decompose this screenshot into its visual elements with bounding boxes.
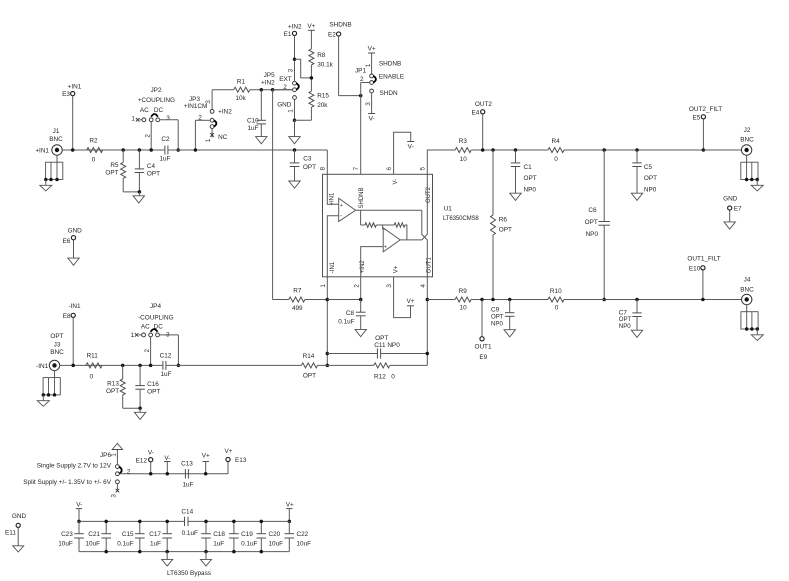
svg-text:8: 8 [320,166,327,170]
node R8-R15 junction [310,76,314,80]
power flag V- at E12 rail [164,455,170,476]
svg-text:R7: R7 [293,287,302,294]
svg-text:OUT1: OUT1 [474,344,491,351]
svg-text:OPT: OPT [147,388,160,395]
svg-text:-COUPLING: -COUPLING [138,314,174,321]
capacitor C8 0.1uF [338,298,365,330]
turret E9 OUT1 [474,298,491,361]
resistor R5 OPT [105,148,125,192]
svg-text:GND: GND [277,101,292,108]
capacitor C19 0.1uF [229,520,257,554]
wire A2 +input from pin 2 [361,247,384,277]
svg-text:2: 2 [198,115,202,122]
wire R5-C4 tie to ground [123,190,141,194]
svg-text:1uF: 1uF [150,540,161,547]
svg-text:C6: C6 [588,207,597,214]
svg-text:-: - [340,214,342,220]
wire bypass top rail [79,520,289,522]
wire to J2 [703,149,741,151]
wire -IN1 rail right segment [166,364,302,366]
svg-text:C17: C17 [149,531,161,538]
capacitor C18 1uF [201,520,225,554]
svg-text:BNC: BNC [740,286,754,293]
capacitor C3 OPT [290,148,316,181]
wire E1 down [293,36,312,78]
svg-text:V-: V- [76,502,82,509]
wire A1 output [356,209,422,211]
turret E10 OUT1_FILT [687,255,720,301]
power flag V- bypass rail [76,502,83,524]
node JP5 pin1 / R15 ground tie [293,118,312,136]
resistor R15 20k [309,91,329,120]
svg-text:SHDN: SHDN [380,90,398,97]
svg-text:2: 2 [127,468,131,475]
svg-text:NP0: NP0 [619,323,631,330]
connector J2 BNC [740,127,763,191]
svg-text:0.1uF: 0.1uF [241,540,257,547]
svg-text:OUT2: OUT2 [426,186,432,203]
capacitor C16 OPT [135,364,160,409]
capacitor C11 NP0 OPT [327,335,427,359]
capacitor C5 OPT NP0 [632,148,657,193]
svg-text:C10: C10 [247,117,259,124]
svg-text:0: 0 [554,156,558,163]
svg-text:OUT2: OUT2 [475,101,492,108]
op-amp A1 triangle [339,198,356,221]
svg-text:SHDNB: SHDNB [379,61,401,68]
svg-text:0: 0 [90,373,94,380]
internal resistor Rf2 [376,223,407,240]
svg-text:1uF: 1uF [182,481,193,488]
svg-text:0: 0 [391,373,395,380]
svg-text:V+: V+ [368,45,376,52]
ground under C8 [355,329,366,336]
node pin1 column C11 tap [326,352,330,356]
svg-text:10uF: 10uF [269,540,284,547]
svg-text:V-: V- [369,116,375,123]
wire E2 to SHDNB column [339,36,363,97]
svg-text:NC: NC [218,134,228,141]
svg-text:C14: C14 [181,509,193,516]
U1 pin 6 V- [386,132,411,184]
svg-text:OPT: OPT [303,373,316,380]
svg-text:E13: E13 [235,457,247,464]
svg-text:E10: E10 [689,265,701,272]
U1 pin 2 +IN2 [353,260,366,300]
svg-text:R13: R13 [107,381,119,388]
U1 pin 8 +IN1 [320,166,339,205]
svg-text:1: 1 [131,116,135,123]
node JP3 leg on rail [194,148,198,152]
wire A1 output crossover to OUT1 [422,210,428,277]
capacitor C20 10uF [257,520,284,554]
ground under C16 [134,412,145,419]
svg-text:1: 1 [288,109,295,113]
power flag V- bracket pin6 [407,142,414,151]
svg-text:C18: C18 [213,531,225,538]
svg-text:10uF: 10uF [85,540,100,547]
svg-text:NP0: NP0 [491,320,503,327]
svg-text:DC: DC [154,107,164,114]
svg-text:2: 2 [353,284,360,288]
svg-text:C11 NP0: C11 NP0 [374,342,400,349]
svg-text:C21: C21 [88,531,100,538]
svg-text:R15: R15 [317,93,329,100]
svg-text:R6: R6 [499,217,508,224]
node C6 bottom [602,298,606,302]
U1 pin 3 V+ [386,265,410,317]
turret E3 +IN1 [62,84,82,150]
svg-text:V+: V+ [307,23,315,30]
svg-text:0: 0 [555,305,559,312]
svg-text:C12: C12 [160,353,172,360]
power flag V- below JP1 [368,114,375,123]
wire +IN1 rail left segment [62,149,165,151]
svg-text:499: 499 [292,305,303,312]
svg-text:1uF: 1uF [248,125,259,132]
power flag V+ at C13 rail [202,453,210,476]
capacitor C13 1uF series [181,461,193,489]
svg-text:NP0: NP0 [586,231,599,238]
resistor R13 OPT [106,364,125,409]
svg-text:1uF: 1uF [160,371,171,378]
svg-text:BNC: BNC [740,136,754,143]
svg-text:C22: C22 [297,531,309,538]
power flag V+ bypass rail [286,502,294,524]
svg-text:V+: V+ [202,453,210,460]
resistor R2 0 [87,138,103,164]
wire +IN1 rail right segment [168,150,327,174]
ground under C17 [162,552,173,566]
jumper JP6 supply select [100,452,131,498]
svg-text:10uF: 10uF [58,540,73,547]
ground under C4 [133,192,144,203]
svg-text:E4: E4 [471,109,479,116]
svg-text:1: 1 [320,284,327,288]
resistor R12 0 [327,363,427,381]
svg-text:4: 4 [420,284,427,288]
node R1-C10-vertical junction [271,88,275,92]
node JP4 pin2 on rail [149,364,153,368]
svg-text:1: 1 [111,453,118,457]
svg-text:+COUPLING: +COUPLING [138,97,175,104]
svg-text:3: 3 [287,68,294,72]
svg-text:-IN1: -IN1 [68,303,81,310]
resistor R3 10 [455,138,548,163]
turret E13 V+ [225,448,247,474]
svg-text:+IN1: +IN1 [35,147,49,154]
power flag V+ above JP1 [368,45,376,74]
op-amp U1 LT6350CMS8 box [323,174,480,276]
ground under C9 [504,330,515,337]
svg-text:BNC: BNC [50,349,64,356]
svg-text:C15: C15 [122,531,134,538]
svg-text:R11: R11 [87,353,99,360]
svg-text:+: + [384,244,387,250]
svg-text:1uF: 1uF [213,540,224,547]
svg-text:NP0: NP0 [644,187,657,194]
svg-text:+IN2: +IN2 [261,80,275,87]
turret E6 GND [62,228,82,259]
capacitor C17 1uF [149,520,172,554]
resistor R14 OPT [302,353,328,380]
svg-text:V+: V+ [394,265,400,273]
svg-text:+IN1: +IN1 [68,84,82,91]
svg-text:C1: C1 [524,164,533,171]
svg-text:3: 3 [205,100,212,104]
svg-text:2: 2 [360,76,364,83]
svg-text:OUT1_FILT: OUT1_FILT [687,255,720,262]
svg-text:10: 10 [460,305,468,312]
wire JP6 to V- rail [119,473,228,475]
turret E7 GND [723,196,742,222]
svg-text:JP2: JP2 [150,87,161,94]
svg-text:R10: R10 [550,288,562,295]
power flag V+ bracket pin3 [407,298,415,306]
svg-text:OPT: OPT [491,313,504,320]
resistor R10 0 [548,288,742,312]
svg-text:J1: J1 [53,128,60,135]
svg-text:JP4: JP4 [150,303,161,310]
svg-text:R1: R1 [237,79,246,86]
svg-text:C20: C20 [269,531,281,538]
svg-text:R5: R5 [110,162,119,169]
jumper JP2 +COUPLING [131,87,178,150]
node E3 junction [71,148,75,152]
svg-text:Split Supply +/- 1.35V to +/-: Split Supply +/- 1.35V to +/- 6V [23,479,111,486]
svg-text:0.1uF: 0.1uF [338,318,354,325]
wire R13-C16 tie [123,407,142,413]
node JP2 pin3 on rail [176,148,180,152]
turret E1 +IN2 [284,24,302,38]
svg-text:C13: C13 [181,461,193,468]
wire A1 feedback tap [360,210,362,225]
capacitor C21 10uF [85,520,111,554]
turret E4 OUT2 [471,101,492,152]
svg-text:OUT2_FILT: OUT2_FILT [689,106,722,113]
svg-text:0.1uF: 0.1uF [117,540,133,547]
wire long vertical to -IN1 network [272,90,274,300]
svg-text:C16: C16 [147,381,159,388]
capacitor C7 OPT NP0 [619,298,642,330]
turret E8 -IN1 [63,303,81,367]
svg-text:E2: E2 [328,31,336,38]
svg-text:2: 2 [145,134,152,138]
svg-text:+IN2: +IN2 [218,109,232,116]
svg-text:V-: V- [408,144,414,151]
svg-text:R2: R2 [89,138,98,145]
capacitor C6 OPT NP0 [585,150,610,300]
resistor R1 10k [212,79,292,102]
wire A1 -input [327,216,338,277]
connector J3 BNC -IN1 OPT [36,333,64,406]
svg-text:2: 2 [144,348,151,352]
svg-text:30.1k: 30.1k [317,61,333,68]
svg-text:R14: R14 [303,353,315,360]
svg-text:JP5: JP5 [264,72,275,79]
svg-text:C2: C2 [161,136,170,143]
svg-text:EXT: EXT [279,76,292,83]
resistor R8 30.1k [309,49,334,91]
svg-text:C3: C3 [303,155,312,162]
svg-text:0: 0 [92,157,96,164]
ground under C5 [631,193,642,200]
svg-text:U1: U1 [444,206,453,213]
capacitor C15 0.1uF [117,520,144,554]
connector J1 BNC +IN1 [35,128,63,191]
resistor R4 0 [548,138,703,163]
svg-text:20k: 20k [317,102,328,109]
svg-text:R8: R8 [317,52,326,59]
resistor R6 OPT [491,150,513,300]
svg-text:J3: J3 [54,341,61,348]
svg-text:1uF: 1uF [159,155,170,162]
svg-text:V-: V- [148,450,154,457]
jumper JP5 +IN2 EXT/GND [261,61,299,120]
svg-text:C4: C4 [147,163,156,170]
svg-text:10: 10 [460,156,468,163]
capacitor C4 OPT [135,148,160,192]
node pin4 column C11 tap [426,352,430,356]
resistor R7 499 [273,287,328,312]
node C6 top [602,148,606,152]
svg-text:OPT: OPT [499,226,512,233]
svg-text:1: 1 [365,63,372,67]
svg-text:NP0: NP0 [524,187,537,194]
svg-text:E8: E8 [63,313,71,320]
ground under E11 [13,546,24,552]
svg-text:E5: E5 [692,114,700,121]
wire R7 line to C8 node [327,299,360,301]
wire bypass bottom rail [79,551,289,553]
svg-text:1: 1 [205,138,212,142]
ground under C10 [256,137,267,144]
svg-text:-IN1: -IN1 [36,363,49,370]
op-amp A2 triangle [383,228,400,252]
svg-text:C23: C23 [61,531,73,538]
resistor R9 10 [427,288,548,312]
svg-text:R4: R4 [552,138,561,145]
svg-text:10uF: 10uF [297,540,312,547]
svg-text:-: - [384,228,386,234]
ground under JP5 [289,137,300,144]
svg-text:0.1uF: 0.1uF [182,530,198,537]
turret E5 OUT2_FILT [689,106,722,152]
svg-text:BNC: BNC [49,136,63,143]
capacitor C12 1uF series [160,353,172,379]
svg-text:GND: GND [68,228,83,235]
turret E11 GND [5,513,26,546]
svg-text:V+: V+ [407,298,415,305]
svg-text:V+: V+ [286,502,294,509]
svg-text:OPT: OPT [50,333,63,340]
capacitor C14 0.1uF series [181,509,198,537]
node JP4 pin3 on rail [177,364,181,368]
svg-text:OPT: OPT [303,164,316,171]
svg-text:3: 3 [110,494,117,498]
svg-text:R12: R12 [374,373,386,380]
label single supply [37,463,112,470]
svg-text:J4: J4 [744,277,751,284]
wire SHDNB column to pin 7 [360,83,362,175]
svg-text:C8: C8 [346,310,355,317]
node R6 bottom [491,298,495,302]
svg-text:JP1: JP1 [355,68,366,75]
internal resistor Rf1 [361,223,377,227]
capacitor C2 1uF series [159,136,170,162]
svg-text:+: + [340,203,343,209]
connector J4 BNC [740,277,763,341]
svg-text:3: 3 [365,102,372,106]
svg-text:SHDNB: SHDNB [329,22,351,29]
svg-text:+IN1CM: +IN1CM [184,103,208,110]
capacitor C9 OPT NP0 [491,298,514,330]
ground flag above JP6 [112,443,122,464]
ground under E7 [724,222,735,229]
svg-text:OPT: OPT [147,171,160,178]
label split supply [23,479,111,486]
svg-text:J2: J2 [744,127,751,134]
capacitor C10 1uF [247,88,266,137]
node -IN1 rail junction [326,364,330,368]
node pin1 column R7 [326,298,330,302]
label LT6350 Bypass [167,570,211,577]
svg-text:3: 3 [386,284,393,288]
ground under C7 [631,330,642,337]
turret E2 SHDNB [328,22,352,39]
svg-text:AC: AC [141,324,150,331]
svg-text:OPT: OPT [585,219,598,226]
resistor R11 0 [86,353,102,381]
ground under C1 [510,193,521,200]
jumper JP1 SHDNB/ENABLE/SHDN [355,61,404,114]
U1 pin 4 OUT1 [420,257,433,366]
svg-text:-IN1: -IN1 [330,261,336,273]
node JP2 pin2 on rail [149,148,153,152]
jumper JP4 -COUPLING [131,303,179,365]
svg-text:C5: C5 [644,164,653,171]
svg-text:E11: E11 [5,530,16,537]
jumper JP3 +IN1CM [184,90,233,150]
capacitor C1 OPT NP0 [511,148,537,193]
svg-text:V+: V+ [225,448,233,455]
ground under E6 [68,258,79,265]
svg-text:R9: R9 [459,288,468,295]
svg-text:GND: GND [12,513,27,520]
U1 pin 7 SHDNB [353,166,365,208]
svg-text:V-: V- [393,179,399,185]
svg-text:E12: E12 [136,457,148,464]
svg-text:R3: R3 [459,138,468,145]
wire -IN1 rail left segment [60,364,163,366]
svg-text:Single Supply 2.7V to 12V: Single Supply 2.7V to 12V [37,463,112,470]
svg-text:E9: E9 [479,354,487,361]
svg-text:ENABLE: ENABLE [379,74,404,81]
svg-text:C19: C19 [241,531,253,538]
svg-text:E1: E1 [284,31,292,38]
node pin4 column OUT1 rail [426,298,430,302]
U1 pin 1 -IN1 [320,261,336,365]
capacitor C23 10uF [58,521,84,551]
U1 pin 5 OUT2 [420,150,456,203]
svg-text:OPT: OPT [644,175,657,182]
svg-text:GND: GND [723,196,738,203]
capacitor C22 10uF [285,521,312,551]
svg-text:SHDNB: SHDNB [359,187,365,208]
svg-text:3: 3 [166,115,170,122]
svg-text:LT6350 Bypass: LT6350 Bypass [167,570,211,577]
wire A2 output crossover to OUT2 [400,174,427,240]
